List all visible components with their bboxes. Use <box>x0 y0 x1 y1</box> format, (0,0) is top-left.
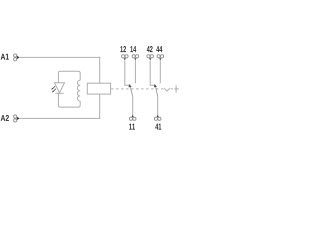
terminal 14 clamp <box>132 55 139 58</box>
module box (electronics block with LED and winding) <box>58 71 80 107</box>
terminal 44 clamp <box>157 55 164 58</box>
wire 44 <box>159 60 161 83</box>
contact 1 blade arrowhead <box>129 84 132 87</box>
LED D1 cathode bar <box>56 92 64 94</box>
terminal 44 label <box>156 46 162 52</box>
terminal A1 clamp wedge <box>17 56 20 59</box>
contact 1 blade <box>130 85 133 96</box>
wire coil feed right vertical (upper segment) <box>99 57 101 83</box>
mechanical link dash after v <box>171 88 173 90</box>
wire 41 common <box>157 96 159 116</box>
wire coil feed right vertical (lower segment) <box>99 94 101 119</box>
relay coil K1 rectangle <box>87 83 110 94</box>
terminal 42 clamp <box>147 55 154 58</box>
terminal 14 label <box>130 46 136 52</box>
terminal 11 clamp <box>132 115 134 117</box>
terminal A2 clamp circles <box>14 115 17 122</box>
terminal 12 clamp <box>122 55 129 58</box>
wire 42 <box>150 60 155 85</box>
LED D1 emission arrows <box>51 86 56 92</box>
mechanical link dashed line <box>111 88 164 90</box>
terminal A2 clamp wedge <box>17 117 20 120</box>
terminal 42 label <box>147 46 153 52</box>
terminal A2 label <box>1 115 9 121</box>
wire 11 common <box>132 96 134 116</box>
wire A2 (coil feed bottom) <box>20 117 101 119</box>
end stop horizontal dash <box>174 88 179 90</box>
terminal 12 label <box>120 46 126 52</box>
terminal 41 label <box>155 124 161 130</box>
terminal A1 label <box>1 54 9 60</box>
contact 2 blade arrowhead <box>154 84 157 87</box>
terminal A1 clamp circles <box>14 54 17 61</box>
terminal 11 label <box>129 124 135 130</box>
contact 2 blade <box>155 85 157 96</box>
LED D1 triangle <box>55 83 65 93</box>
wire A1 (coil feed top) <box>20 56 101 58</box>
wire 12 <box>125 60 130 85</box>
terminal 41 clamp <box>157 115 159 117</box>
end stop cross bar <box>175 85 177 93</box>
actuator v symbol <box>164 88 170 91</box>
coil winding (4 arcs on module box right edge) <box>77 80 80 101</box>
wire 14 <box>134 60 136 83</box>
